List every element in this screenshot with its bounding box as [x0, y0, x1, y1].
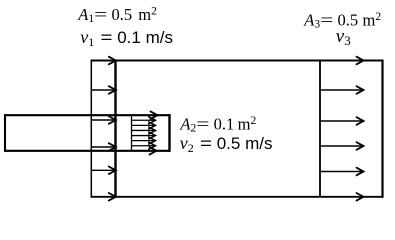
duct top wall: [91, 60, 384, 62]
inlet velocity arrow L2: [91, 86, 116, 94]
pipe velocity-profile arrow P5: [132, 132, 156, 139]
pipe velocity-profile arrow P6: [132, 137, 156, 144]
svg-text:v1= 0.1 m/s: v1= 0.1 m/s: [80, 27, 173, 49]
svg-text:A2= 0.1m2: A2= 0.1m2: [179, 115, 256, 135]
duct left wall (section 1 face): [114, 60, 116, 198]
pipe velocity-profile arrow P2: [132, 117, 156, 124]
inlet uniform-velocity line (left): [90, 61, 92, 197]
outlet velocity arrow R1: [320, 57, 364, 65]
inlet pipe bottom wall: [4, 150, 171, 152]
inlet velocity arrow L6: [91, 193, 116, 201]
outlet velocity arrow R6: [320, 193, 364, 201]
outlet velocity arrow R3: [320, 117, 364, 125]
label A2 = 0.1 m^2: [179, 115, 256, 135]
label v2 = 0.5 m/s: [180, 133, 273, 155]
svg-text:A1= 0.5m2: A1= 0.5m2: [77, 5, 157, 25]
inlet velocity arrow L5: [91, 167, 116, 175]
inlet velocity arrow L4: [91, 143, 116, 151]
label A1 = 0.5 m^2: [77, 5, 157, 25]
pipe velocity-profile arrow P7: [132, 142, 156, 149]
label A3 = 0.5 m^2: [303, 10, 381, 30]
duct bottom wall: [91, 196, 384, 198]
outlet uniform-velocity line (right, section 3): [319, 61, 321, 197]
label v1 = 0.1 m/s: [80, 27, 173, 49]
pipe velocity-profile arrow P3: [132, 122, 156, 129]
pipe velocity-profile arrow P1: [132, 111, 158, 119]
inlet pipe left end cap: [4, 114, 6, 152]
outlet velocity arrow R4: [320, 142, 364, 150]
duct right wall (section 3 exit): [381, 60, 383, 198]
inlet velocity arrow L1: [91, 57, 116, 65]
outlet velocity arrow R5: [320, 168, 364, 176]
inlet pipe right end (section 2 exit): [168, 114, 170, 152]
label v3: [336, 26, 351, 48]
pipe velocity-profile start line: [131, 115, 133, 151]
inlet pipe top wall: [4, 114, 171, 116]
svg-text:v2= 0.5 m/s: v2= 0.5 m/s: [180, 133, 273, 155]
inlet velocity arrow L3: [91, 116, 116, 124]
pipe velocity-profile arrow P4: [132, 127, 156, 134]
outlet velocity arrow R2: [320, 86, 364, 94]
pipe velocity-profile arrow P8: [132, 147, 157, 155]
